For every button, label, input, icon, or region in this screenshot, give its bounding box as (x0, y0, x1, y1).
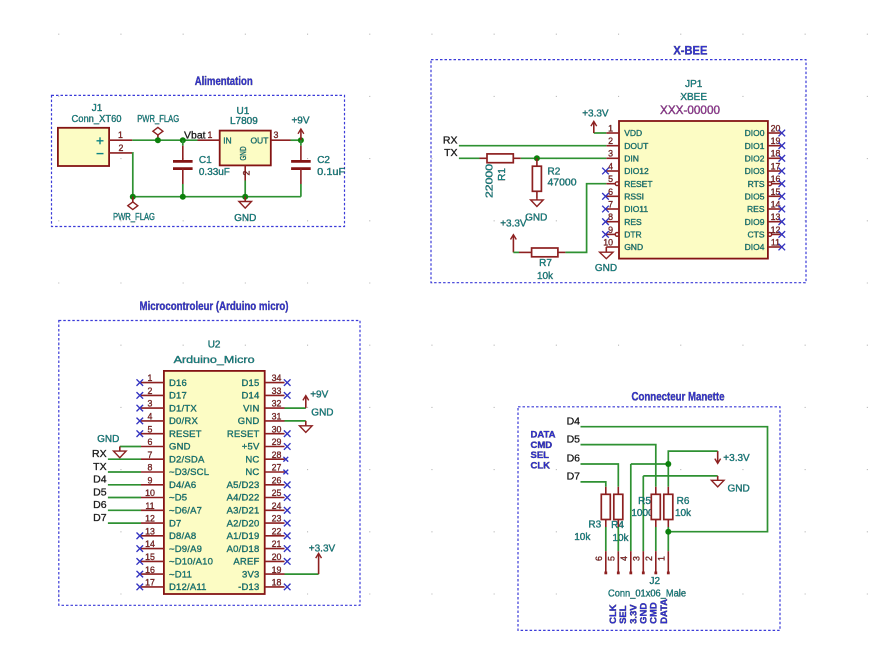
svg-text:GND: GND (238, 147, 248, 161)
svg-text:TX: TX (444, 147, 457, 159)
svg-text:D12/A11: D12/A11 (169, 582, 207, 593)
svg-text:1: 1 (608, 123, 613, 133)
svg-text:RESET: RESET (624, 179, 652, 189)
svg-text:19: 19 (272, 565, 282, 575)
svg-text:13: 13 (145, 526, 155, 536)
svg-text:RESET: RESET (169, 429, 202, 440)
svg-text:1: 1 (118, 130, 123, 140)
svg-text:1: 1 (656, 556, 666, 561)
svg-text:~D5: ~D5 (169, 493, 187, 504)
svg-text:C1: C1 (199, 155, 212, 166)
svg-text:2: 2 (608, 136, 613, 146)
svg-text:27: 27 (272, 463, 282, 473)
svg-text:DIO4: DIO4 (745, 242, 765, 252)
svg-text:RX: RX (92, 448, 107, 460)
svg-text:33: 33 (272, 386, 282, 396)
svg-text:D4: D4 (93, 474, 107, 486)
svg-text:D7: D7 (567, 471, 581, 483)
svg-text:~D10/A10: ~D10/A10 (169, 557, 213, 568)
svg-text:D4/A6: D4/A6 (169, 480, 196, 491)
svg-text:9: 9 (608, 225, 613, 235)
svg-text:17: 17 (145, 578, 155, 588)
svg-text:D4: D4 (567, 415, 581, 427)
svg-text:8: 8 (608, 212, 613, 222)
svg-text:5: 5 (606, 556, 616, 561)
svg-text:U2: U2 (208, 340, 221, 351)
svg-text:DIO11: DIO11 (624, 204, 648, 214)
svg-text:21: 21 (272, 539, 282, 549)
svg-text:3: 3 (608, 149, 613, 159)
svg-text:RES: RES (747, 204, 765, 214)
svg-text:+3.3V: +3.3V (500, 219, 527, 230)
svg-text:15: 15 (145, 552, 155, 562)
svg-text:30: 30 (272, 424, 282, 434)
svg-text:12: 12 (771, 225, 781, 235)
svg-text:29: 29 (272, 437, 282, 447)
svg-text:28: 28 (272, 450, 282, 460)
svg-text:A5/D23: A5/D23 (227, 480, 260, 491)
svg-text:DIO0: DIO0 (745, 128, 765, 138)
svg-text:DIO2: DIO2 (745, 153, 765, 163)
svg-text:OUT: OUT (250, 135, 268, 145)
svg-text:VIN: VIN (243, 403, 259, 414)
svg-text:DTR: DTR (624, 230, 641, 240)
svg-text:A1/D19: A1/D19 (227, 531, 260, 542)
svg-text:NC: NC (245, 454, 259, 465)
svg-text:+9V: +9V (291, 115, 309, 126)
svg-text:3: 3 (631, 556, 641, 561)
svg-text:-D13: -D13 (238, 582, 259, 593)
svg-text:14: 14 (771, 199, 781, 209)
svg-text:Arduino_Micro: Arduino_Micro (174, 355, 256, 366)
svg-text:D7: D7 (93, 512, 107, 524)
svg-text:10k: 10k (612, 533, 629, 544)
svg-text:PWR_FLAG: PWR_FLAG (113, 212, 155, 223)
svg-text:GND: GND (595, 263, 617, 274)
svg-text:11: 11 (145, 501, 154, 511)
svg-text:D5: D5 (567, 433, 581, 445)
svg-text:CMD: CMD (531, 440, 553, 451)
svg-text:A2/D20: A2/D20 (227, 518, 260, 529)
svg-text:D15: D15 (241, 378, 259, 389)
svg-text:VDD: VDD (624, 128, 642, 138)
svg-text:GND: GND (311, 408, 333, 419)
svg-text:10: 10 (603, 237, 613, 247)
svg-text:6: 6 (148, 437, 153, 447)
svg-text:GND: GND (238, 416, 260, 427)
svg-text:Alimentation: Alimentation (195, 76, 253, 88)
svg-text:GND: GND (97, 434, 119, 445)
svg-text:5: 5 (148, 424, 153, 434)
svg-text:3: 3 (274, 130, 279, 140)
svg-text:10k: 10k (537, 271, 554, 282)
svg-text:RTS: RTS (748, 179, 765, 189)
svg-text:RES: RES (624, 217, 642, 227)
svg-text:14: 14 (145, 539, 155, 549)
svg-text:20: 20 (272, 552, 282, 562)
svg-text:17: 17 (771, 161, 781, 171)
svg-text:DATA: DATA (531, 429, 556, 440)
svg-text:Conn_01x06_Male: Conn_01x06_Male (608, 588, 686, 599)
svg-text:4: 4 (619, 556, 629, 561)
svg-text:A0/D18: A0/D18 (227, 544, 260, 555)
svg-text:Connecteur Manette: Connecteur Manette (632, 391, 725, 403)
svg-text:7: 7 (148, 450, 153, 460)
svg-text:13: 13 (771, 212, 781, 222)
svg-text:IN: IN (223, 135, 232, 145)
svg-text:D16: D16 (169, 378, 187, 389)
svg-text:DOUT: DOUT (624, 141, 648, 151)
svg-text:RSSI: RSSI (624, 191, 644, 201)
svg-text:0.33uF: 0.33uF (199, 167, 230, 178)
svg-text:1: 1 (208, 130, 213, 140)
svg-text:RESET: RESET (227, 429, 260, 440)
svg-text:24: 24 (272, 501, 282, 511)
svg-text:A4/D22: A4/D22 (227, 493, 260, 504)
svg-text:9: 9 (148, 475, 153, 485)
svg-text:D6: D6 (567, 453, 581, 465)
svg-text:10k: 10k (675, 508, 692, 519)
svg-text:26: 26 (272, 475, 282, 485)
svg-text:D8/A8: D8/A8 (169, 531, 196, 542)
svg-text:0.1uF: 0.1uF (317, 167, 345, 178)
svg-text:6: 6 (608, 187, 613, 197)
svg-text:R6: R6 (677, 496, 690, 507)
svg-text:NC: NC (245, 467, 259, 478)
svg-text:DIO9: DIO9 (745, 217, 765, 227)
svg-text:GND: GND (234, 213, 256, 224)
svg-text:4: 4 (608, 161, 613, 171)
svg-text:2: 2 (644, 556, 654, 561)
svg-text:2: 2 (119, 143, 124, 153)
svg-text:32: 32 (272, 399, 282, 409)
svg-text:6: 6 (594, 556, 604, 561)
svg-text:L7809: L7809 (230, 116, 258, 127)
svg-text:3V3: 3V3 (242, 569, 260, 580)
svg-text:DIO3: DIO3 (745, 166, 765, 176)
svg-text:RX: RX (443, 135, 458, 147)
svg-text:GND: GND (525, 212, 547, 223)
svg-text:TX: TX (93, 461, 106, 473)
svg-text:18: 18 (272, 578, 282, 588)
svg-text:~D11: ~D11 (169, 569, 192, 580)
svg-text:+3.3V: +3.3V (723, 453, 750, 464)
svg-text:7: 7 (608, 199, 613, 209)
svg-text:SEL: SEL (531, 450, 550, 461)
svg-text:D6: D6 (93, 499, 107, 511)
svg-text:GND: GND (624, 242, 643, 252)
svg-text:23: 23 (272, 514, 282, 524)
svg-text:C2: C2 (317, 155, 330, 166)
svg-text:5: 5 (608, 174, 613, 184)
svg-text:34: 34 (272, 373, 282, 383)
svg-text:CLK: CLK (531, 461, 551, 472)
svg-text:10k: 10k (574, 532, 591, 543)
svg-text:31: 31 (272, 412, 282, 422)
svg-text:XXX-00000: XXX-00000 (660, 105, 720, 117)
svg-text:D2/SDA: D2/SDA (169, 454, 205, 465)
svg-text:4: 4 (148, 412, 153, 422)
svg-text:GND: GND (728, 484, 750, 495)
svg-text:D5: D5 (93, 486, 107, 498)
svg-text:+3.3V: +3.3V (309, 544, 336, 555)
svg-text:DIO12: DIO12 (624, 166, 649, 176)
svg-text:+5V: +5V (242, 442, 260, 453)
svg-text:DATA: DATA (659, 599, 670, 624)
svg-text:D14: D14 (241, 391, 259, 402)
svg-text:+9V: +9V (310, 389, 328, 400)
svg-text:R2: R2 (548, 166, 561, 177)
svg-text:22: 22 (272, 526, 282, 536)
svg-text:20: 20 (771, 123, 781, 133)
svg-text:47000: 47000 (548, 177, 577, 188)
svg-text:~D6/A7: ~D6/A7 (169, 506, 202, 517)
svg-text:22000: 22000 (485, 163, 496, 198)
svg-text:25: 25 (272, 488, 282, 498)
svg-text:12: 12 (145, 514, 155, 524)
svg-text:D7: D7 (169, 518, 182, 529)
svg-text:A3/D21: A3/D21 (227, 506, 260, 517)
svg-text:AREF: AREF (233, 557, 259, 568)
svg-text:19: 19 (771, 136, 781, 146)
svg-text:16: 16 (771, 174, 781, 184)
svg-text:D0/RX: D0/RX (169, 416, 198, 427)
svg-text:XBEE: XBEE (680, 92, 707, 103)
svg-text:2: 2 (148, 386, 153, 396)
svg-text:GND: GND (169, 442, 191, 453)
svg-text:11: 11 (771, 237, 780, 247)
svg-text:PWR_FLAG: PWR_FLAG (137, 114, 179, 125)
svg-text:3: 3 (148, 399, 153, 409)
svg-text:DIN: DIN (624, 153, 639, 163)
svg-text:X-BEE: X-BEE (673, 46, 707, 58)
svg-text:J2: J2 (650, 576, 661, 587)
svg-text:R7: R7 (539, 258, 552, 269)
svg-text:18: 18 (771, 149, 781, 159)
svg-text:R5: R5 (638, 496, 651, 507)
svg-text:10: 10 (145, 488, 155, 498)
svg-text:R1: R1 (497, 168, 508, 181)
svg-text:CTS: CTS (748, 230, 765, 240)
svg-text:Conn_XT60: Conn_XT60 (72, 114, 122, 125)
svg-text:D1/TX: D1/TX (169, 403, 197, 414)
svg-text:15: 15 (771, 187, 781, 197)
svg-text:DIO5: DIO5 (745, 191, 765, 201)
svg-text:J1: J1 (92, 103, 103, 114)
svg-text:JP1: JP1 (685, 79, 703, 90)
svg-text:DIO1: DIO1 (745, 141, 765, 151)
svg-text:Microcontroleur (Arduino micro: Microcontroleur (Arduino micro) (140, 301, 289, 313)
svg-text:1: 1 (148, 373, 153, 383)
svg-text:16: 16 (145, 565, 155, 575)
svg-text:D17: D17 (169, 391, 187, 402)
svg-text:+3.3V: +3.3V (582, 109, 609, 120)
svg-text:~D9/A9: ~D9/A9 (169, 544, 202, 555)
svg-text:~D3/SCL: ~D3/SCL (169, 467, 209, 478)
svg-text:8: 8 (148, 463, 153, 473)
svg-text:R3: R3 (588, 520, 601, 531)
svg-text:2: 2 (242, 170, 252, 175)
